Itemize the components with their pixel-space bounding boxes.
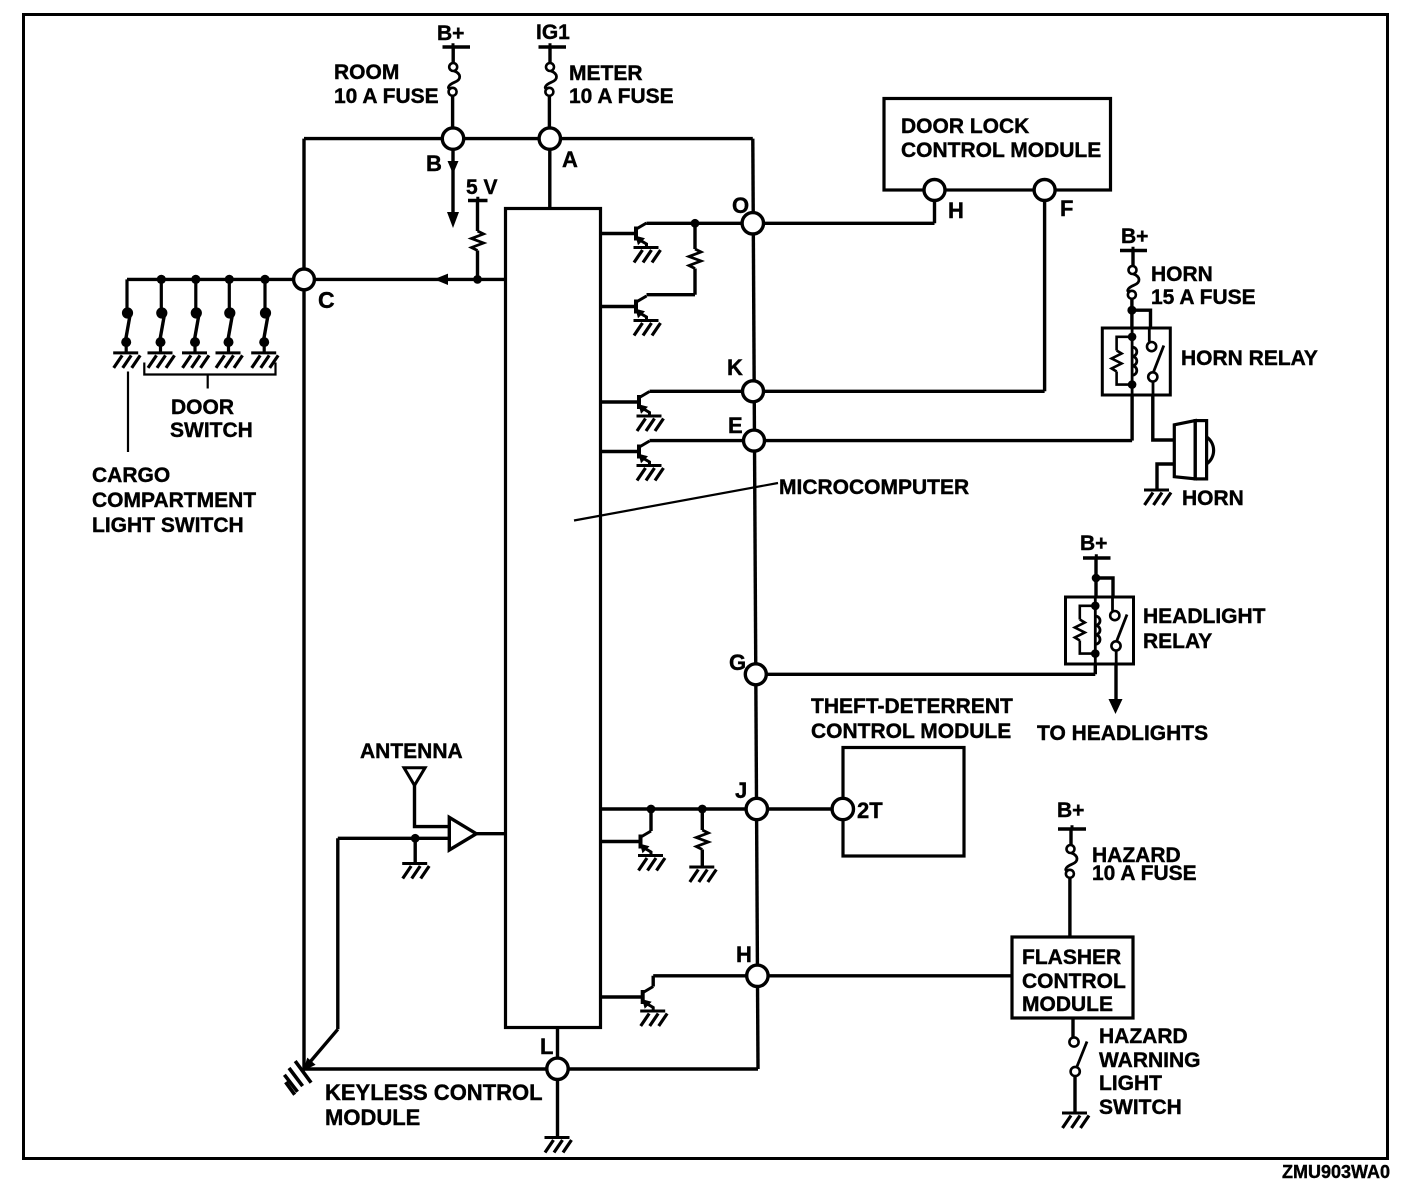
svg-text:ZMU903WA0: ZMU903WA0 bbox=[1282, 1162, 1390, 1182]
svg-text:KEYLESS CONTROL: KEYLESS CONTROL bbox=[325, 1080, 543, 1105]
svg-text:HEADLIGHT: HEADLIGHT bbox=[1143, 605, 1266, 628]
svg-text:H: H bbox=[736, 942, 752, 967]
svg-text:SWITCH: SWITCH bbox=[1099, 1096, 1182, 1119]
svg-text:HORN RELAY: HORN RELAY bbox=[1181, 347, 1318, 370]
svg-text:15 A FUSE: 15 A FUSE bbox=[1151, 286, 1256, 309]
svg-text:COMPARTMENT: COMPARTMENT bbox=[92, 489, 256, 512]
svg-text:B: B bbox=[426, 151, 442, 176]
svg-text:E: E bbox=[728, 413, 743, 438]
svg-text:L: L bbox=[540, 1034, 553, 1059]
svg-text:B+: B+ bbox=[1057, 799, 1084, 822]
svg-text:HORN: HORN bbox=[1182, 487, 1244, 510]
svg-text:METER: METER bbox=[569, 62, 643, 85]
svg-text:MODULE: MODULE bbox=[325, 1105, 420, 1130]
svg-text:5 V: 5 V bbox=[466, 176, 498, 199]
svg-text:DOOR: DOOR bbox=[171, 396, 234, 419]
svg-text:CONTROL MODULE: CONTROL MODULE bbox=[901, 139, 1101, 162]
svg-text:J: J bbox=[735, 778, 747, 803]
svg-text:SWITCH: SWITCH bbox=[170, 419, 253, 442]
svg-text:B+: B+ bbox=[1121, 225, 1148, 248]
svg-text:10 A FUSE: 10 A FUSE bbox=[334, 85, 439, 108]
svg-text:A: A bbox=[562, 147, 578, 172]
svg-text:O: O bbox=[732, 193, 749, 218]
svg-text:CONTROL: CONTROL bbox=[1022, 970, 1126, 993]
svg-text:ANTENNA: ANTENNA bbox=[360, 740, 463, 763]
svg-text:HAZARD: HAZARD bbox=[1099, 1025, 1188, 1048]
svg-text:B+: B+ bbox=[437, 22, 464, 45]
svg-text:MICROCOMPUTER: MICROCOMPUTER bbox=[779, 476, 969, 499]
svg-text:C: C bbox=[318, 287, 335, 313]
svg-text:THEFT-DETERRENT: THEFT-DETERRENT bbox=[811, 695, 1013, 718]
svg-text:DOOR LOCK: DOOR LOCK bbox=[901, 115, 1029, 138]
svg-text:F: F bbox=[1060, 196, 1073, 221]
svg-text:10 A FUSE: 10 A FUSE bbox=[569, 85, 674, 108]
svg-text:WARNING: WARNING bbox=[1099, 1049, 1201, 1072]
svg-text:TO HEADLIGHTS: TO HEADLIGHTS bbox=[1037, 722, 1208, 745]
svg-text:RELAY: RELAY bbox=[1143, 630, 1212, 653]
svg-text:ROOM: ROOM bbox=[334, 61, 399, 84]
svg-text:CARGO: CARGO bbox=[92, 464, 170, 487]
svg-text:K: K bbox=[727, 355, 743, 380]
svg-text:LIGHT: LIGHT bbox=[1099, 1072, 1162, 1095]
svg-text:CONTROL MODULE: CONTROL MODULE bbox=[811, 720, 1011, 743]
svg-text:IG1: IG1 bbox=[536, 21, 570, 44]
svg-text:HORN: HORN bbox=[1151, 263, 1213, 286]
svg-text:LIGHT SWITCH: LIGHT SWITCH bbox=[92, 514, 244, 537]
svg-text:B+: B+ bbox=[1080, 532, 1107, 555]
svg-text:H: H bbox=[948, 198, 964, 223]
svg-text:G: G bbox=[729, 650, 746, 675]
svg-text:MODULE: MODULE bbox=[1022, 993, 1113, 1016]
svg-text:FLASHER: FLASHER bbox=[1022, 946, 1121, 969]
svg-text:10 A FUSE: 10 A FUSE bbox=[1092, 862, 1197, 885]
svg-text:2T: 2T bbox=[857, 798, 883, 823]
